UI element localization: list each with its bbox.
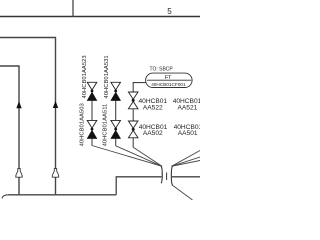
wire (stub from top edge to bus) bbox=[72, 0, 74, 17]
wire (diagonal from connector to bottom edge) bbox=[172, 185, 193, 200]
wire (cable segment inside connector) bbox=[166, 173, 168, 181]
wire (right side of connector to edge) bbox=[172, 176, 200, 178]
suppressor 40HCB01AA511 (bottom pair, column 2) bbox=[111, 120, 121, 138]
connector (bulkhead disconnect, left half) bbox=[161, 166, 162, 183]
svg-text:AA522: AA522 bbox=[143, 104, 163, 111]
wire (step up from bottom bus to connector) bbox=[116, 177, 161, 195]
wire (column 1 mid segment) bbox=[91, 101, 93, 121]
wire (column 1 tail to fan) bbox=[91, 139, 93, 146]
arrow (current direction on feeder A) bbox=[53, 101, 58, 108]
suppressor 40HCB01AA503 (bottom pair, column 1) bbox=[87, 120, 97, 138]
connector pin (in-line contact on feeder A) bbox=[52, 169, 58, 178]
svg-text:40HCB01AA511: 40HCB01AA511 bbox=[102, 104, 108, 147]
functional item oval 40HCB01CF001 bbox=[146, 73, 193, 87]
wire (column 3 top hook to FT oval) bbox=[133, 83, 147, 92]
svg-text:FT: FT bbox=[165, 75, 172, 81]
wire (column 3 mid segment) bbox=[132, 109, 134, 121]
svg-text:40HCB01AA503: 40HCB01AA503 bbox=[80, 103, 86, 146]
svg-text:5: 5 bbox=[167, 7, 172, 16]
bottom bus wire bbox=[9, 194, 117, 196]
svg-text:AA521: AA521 bbox=[177, 104, 197, 111]
suppressor 40HCB01AA531 (top pair, column 2) bbox=[111, 82, 121, 100]
wire (fan line from column 3 to connector) bbox=[133, 147, 162, 166]
arrow (current direction on feeder B) bbox=[16, 101, 21, 108]
svg-text:AA501: AA501 bbox=[178, 130, 198, 137]
bus bar (top horizontal wire) bbox=[0, 16, 200, 18]
suppressor 40HCB01AA522 (top hourglass, column 3) bbox=[128, 92, 138, 109]
suppressor 40HCB01AA502 (bottom hourglass, column 3) bbox=[128, 121, 138, 138]
wire (fan line right 2 to 40HCB01AA501 circuit) bbox=[172, 157, 201, 166]
wire (column 2 tail to fan) bbox=[115, 139, 117, 146]
wire (column 2 mid segment) bbox=[115, 101, 117, 121]
wire (fan line from column 2 to connector) bbox=[116, 146, 162, 167]
wire (curved left end of bottom bus) bbox=[2, 195, 9, 199]
svg-text:40HCB01CF001: 40HCB01CF001 bbox=[151, 82, 186, 87]
wire (fan line right 1 to 40HCB01AA521 circuit) bbox=[172, 151, 201, 167]
svg-text:AA502: AA502 bbox=[143, 130, 163, 137]
connector pin (in-line contact on feeder B) bbox=[16, 169, 22, 178]
wire (fan line from column 1 to connector) bbox=[92, 146, 162, 167]
svg-text:TO: SBCP: TO: SBCP bbox=[150, 67, 174, 73]
wire (feeder B: from left edge, corner, down to bottom bus) bbox=[0, 66, 19, 195]
suppressor 40HCB01AA523 (top pair, column 1) bbox=[87, 82, 97, 100]
svg-text:40HCB01AA523: 40HCB01AA523 bbox=[82, 55, 88, 98]
wire (fan line right 3) bbox=[172, 161, 201, 167]
svg-text:40HCB01AA531: 40HCB01AA531 bbox=[104, 55, 110, 98]
connector (bulkhead disconnect, right half) bbox=[171, 166, 172, 185]
wire (feeder A: from left edge, corner, down to bottom bus) bbox=[0, 38, 56, 195]
wire (column 3 tail to fan) bbox=[132, 138, 134, 148]
